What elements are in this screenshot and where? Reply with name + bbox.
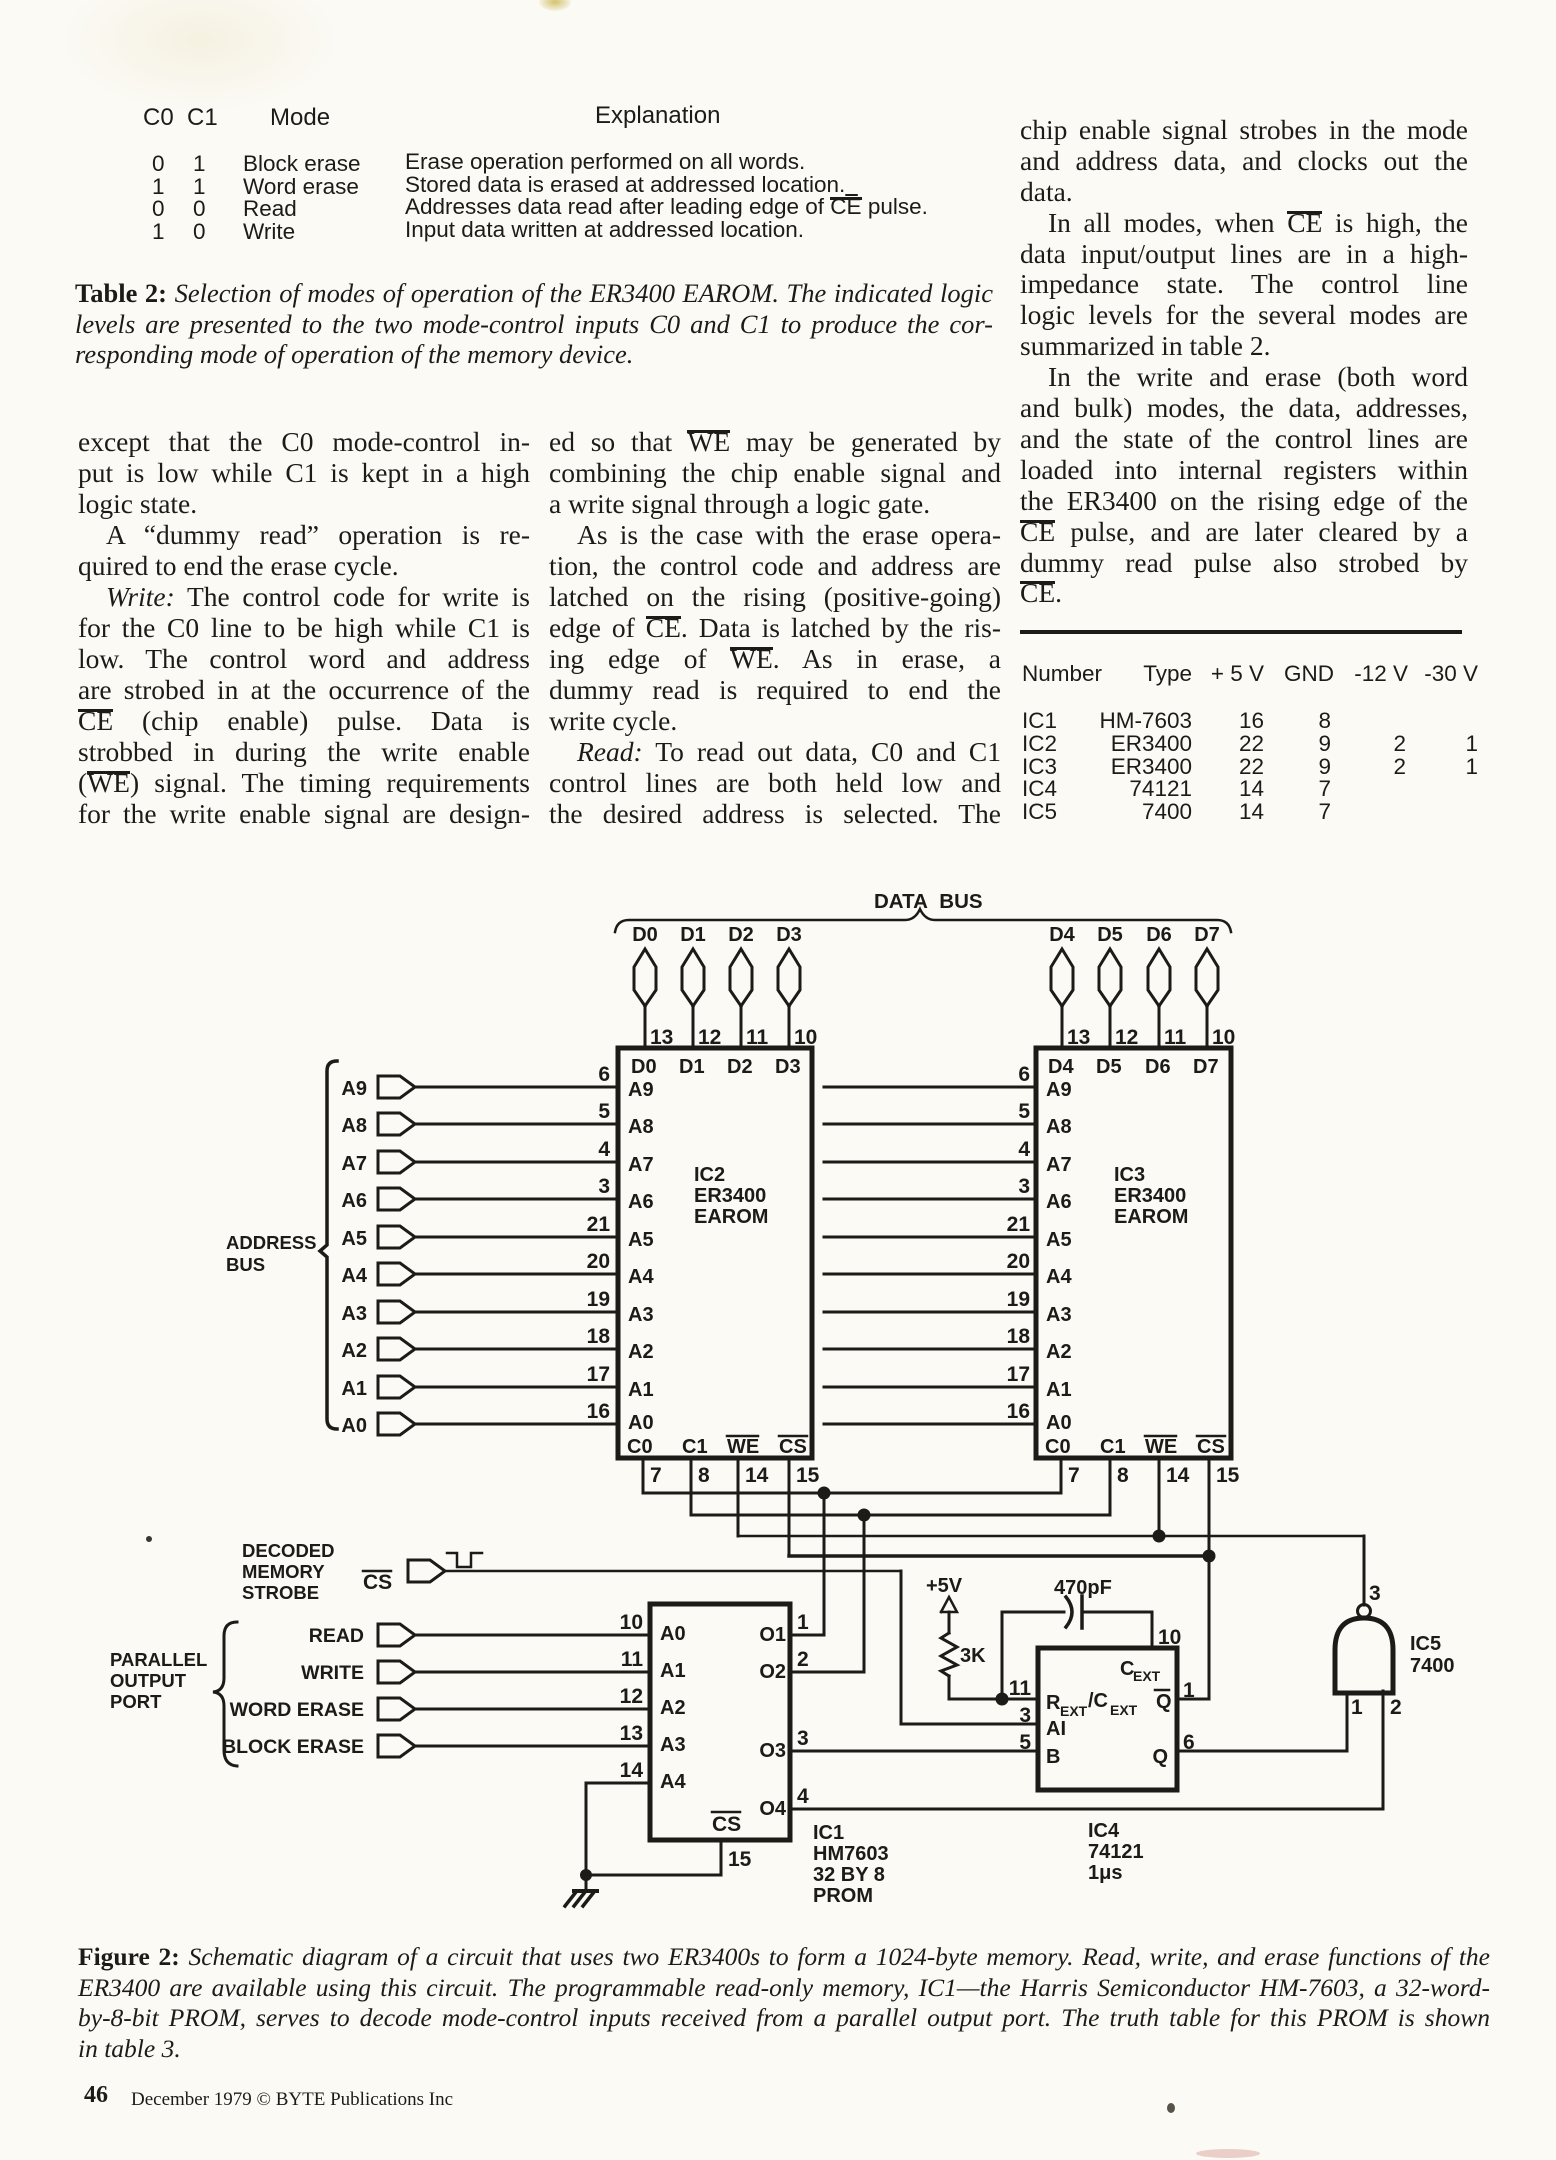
svg-text:6: 6 — [1018, 1063, 1030, 1086]
svg-text:C0: C0 — [1045, 1436, 1071, 1458]
svg-text:A1: A1 — [628, 1379, 654, 1401]
svg-text:13: 13 — [620, 1722, 643, 1745]
svg-text:6: 6 — [598, 1063, 610, 1086]
svg-text:A5: A5 — [628, 1229, 654, 1251]
svg-text:A2: A2 — [628, 1341, 654, 1363]
svg-text:14: 14 — [745, 1464, 769, 1487]
svg-text:WRITE: WRITE — [301, 1662, 364, 1684]
svg-text:IC4: IC4 — [1088, 1820, 1120, 1842]
svg-text:A6: A6 — [628, 1191, 654, 1213]
svg-text:EXT: EXT — [1060, 1703, 1088, 1719]
svg-text:O2: O2 — [759, 1661, 786, 1683]
svg-text:C1: C1 — [682, 1436, 708, 1458]
svg-text:D3: D3 — [776, 924, 802, 946]
svg-text:A7: A7 — [1046, 1154, 1072, 1176]
svg-text:A5: A5 — [341, 1228, 367, 1250]
svg-text:20: 20 — [1007, 1250, 1030, 1273]
svg-text:A4: A4 — [660, 1771, 686, 1793]
svg-text:11: 11 — [1009, 1677, 1032, 1700]
svg-text:74121: 74121 — [1088, 1841, 1144, 1863]
svg-text:19: 19 — [1007, 1288, 1030, 1311]
svg-text:21: 21 — [587, 1213, 611, 1236]
svg-text:A8: A8 — [1046, 1116, 1072, 1138]
svg-text:12: 12 — [620, 1685, 643, 1708]
svg-text:A4: A4 — [341, 1265, 367, 1287]
svg-text:A1: A1 — [1046, 1379, 1072, 1401]
svg-text:A0: A0 — [1046, 1412, 1072, 1434]
svg-text:C0: C0 — [627, 1436, 653, 1458]
svg-text:1μs: 1μs — [1088, 1862, 1122, 1884]
svg-text:10: 10 — [1158, 1626, 1181, 1649]
svg-text:A3: A3 — [341, 1303, 367, 1325]
svg-text:BLOCK ERASE: BLOCK ERASE — [222, 1736, 364, 1758]
svg-text:HM7603: HM7603 — [813, 1843, 889, 1865]
svg-text:+5V: +5V — [926, 1575, 963, 1597]
svg-text:D7: D7 — [1194, 924, 1220, 946]
svg-text:AI: AI — [1046, 1718, 1066, 1740]
svg-text:/C: /C — [1088, 1690, 1108, 1712]
svg-text:15: 15 — [728, 1848, 752, 1871]
svg-text:10: 10 — [620, 1611, 643, 1634]
svg-text:7: 7 — [650, 1464, 662, 1487]
svg-text:OUTPUT: OUTPUT — [110, 1670, 187, 1691]
svg-text:A9: A9 — [1046, 1079, 1072, 1101]
svg-text:EXT: EXT — [1110, 1702, 1138, 1718]
svg-text:21: 21 — [1007, 1213, 1031, 1236]
svg-text:A9: A9 — [341, 1078, 367, 1100]
svg-text:A3: A3 — [1046, 1304, 1072, 1326]
svg-text:17: 17 — [1007, 1363, 1030, 1386]
svg-text:7400: 7400 — [1410, 1655, 1455, 1677]
svg-text:IC5: IC5 — [1410, 1633, 1441, 1655]
svg-text:1: 1 — [1183, 1679, 1195, 1702]
svg-text:D6: D6 — [1146, 924, 1172, 946]
svg-text:13: 13 — [650, 1026, 673, 1049]
svg-text:A6: A6 — [1046, 1191, 1072, 1213]
svg-text:5: 5 — [1018, 1100, 1030, 1123]
svg-text:IC1: IC1 — [813, 1822, 844, 1844]
svg-text:19: 19 — [587, 1288, 610, 1311]
svg-text:3: 3 — [1019, 1704, 1031, 1727]
svg-text:CS: CS — [1197, 1436, 1225, 1458]
svg-text:3: 3 — [1369, 1582, 1381, 1605]
svg-text:PROM: PROM — [813, 1885, 873, 1907]
svg-text:CS: CS — [363, 1571, 392, 1594]
svg-text:14: 14 — [1166, 1464, 1190, 1487]
svg-text:10: 10 — [1212, 1026, 1235, 1049]
svg-text:EAROM: EAROM — [694, 1206, 768, 1228]
svg-text:18: 18 — [587, 1325, 611, 1348]
svg-text:A1: A1 — [660, 1660, 686, 1682]
svg-text:12: 12 — [1115, 1026, 1138, 1049]
svg-text:3: 3 — [598, 1175, 610, 1198]
svg-text:A4: A4 — [628, 1266, 654, 1288]
svg-text:MEMORY: MEMORY — [242, 1561, 325, 1582]
svg-text:ER3400: ER3400 — [694, 1185, 766, 1207]
svg-text:16: 16 — [587, 1400, 610, 1423]
svg-text:O3: O3 — [759, 1740, 786, 1762]
svg-text:IC2: IC2 — [694, 1164, 725, 1186]
svg-text:EXT: EXT — [1133, 1668, 1161, 1684]
svg-text:O1: O1 — [759, 1624, 786, 1646]
svg-text:A7: A7 — [628, 1154, 654, 1176]
svg-text:Q: Q — [1152, 1746, 1168, 1768]
svg-text:DATA BUS: DATA BUS — [874, 890, 983, 913]
svg-text:5: 5 — [1019, 1731, 1031, 1754]
svg-text:12: 12 — [698, 1026, 721, 1049]
svg-text:STROBE: STROBE — [242, 1582, 319, 1603]
svg-text:D2: D2 — [727, 1056, 753, 1078]
svg-text:BUS: BUS — [226, 1254, 265, 1275]
svg-text:D0: D0 — [632, 924, 658, 946]
svg-text:A0: A0 — [660, 1623, 686, 1645]
svg-text:32 BY 8: 32 BY 8 — [813, 1864, 885, 1886]
svg-text:A5: A5 — [1046, 1229, 1072, 1251]
svg-text:READ: READ — [309, 1625, 364, 1647]
svg-text:1: 1 — [797, 1611, 809, 1634]
svg-text:D5: D5 — [1097, 924, 1123, 946]
svg-text:WORD ERASE: WORD ERASE — [230, 1699, 364, 1721]
svg-text:D4: D4 — [1049, 924, 1075, 946]
svg-text:470pF: 470pF — [1054, 1577, 1112, 1599]
svg-text:D1: D1 — [679, 1056, 705, 1078]
svg-text:15: 15 — [796, 1464, 820, 1487]
svg-text:R: R — [1046, 1692, 1061, 1714]
svg-text:8: 8 — [698, 1464, 710, 1487]
svg-text:A8: A8 — [628, 1116, 654, 1138]
svg-text:4: 4 — [598, 1138, 610, 1161]
svg-text:A2: A2 — [1046, 1341, 1072, 1363]
svg-text:CS: CS — [779, 1436, 807, 1458]
svg-text:D0: D0 — [631, 1056, 657, 1078]
svg-text:20: 20 — [587, 1250, 610, 1273]
svg-text:ADDRESS: ADDRESS — [226, 1232, 316, 1253]
svg-text:A6: A6 — [341, 1190, 367, 1212]
svg-text:A0: A0 — [628, 1412, 654, 1434]
svg-text:2: 2 — [1390, 1696, 1402, 1719]
svg-text:EAROM: EAROM — [1114, 1206, 1188, 1228]
svg-text:D5: D5 — [1096, 1056, 1122, 1078]
svg-text:11: 11 — [746, 1026, 769, 1049]
svg-text:4: 4 — [797, 1785, 809, 1808]
svg-text:1: 1 — [1351, 1696, 1363, 1719]
svg-text:13: 13 — [1067, 1026, 1090, 1049]
svg-text:14: 14 — [620, 1759, 644, 1782]
svg-text:PARALLEL: PARALLEL — [110, 1649, 207, 1670]
svg-text:CS: CS — [712, 1813, 741, 1836]
svg-text:IC3: IC3 — [1114, 1164, 1145, 1186]
svg-text:3: 3 — [797, 1727, 809, 1750]
svg-text:2: 2 — [797, 1648, 809, 1671]
svg-text:3: 3 — [1018, 1175, 1030, 1198]
svg-text:10: 10 — [794, 1026, 817, 1049]
svg-text:D3: D3 — [775, 1056, 801, 1078]
svg-text:17: 17 — [587, 1363, 610, 1386]
svg-text:A4: A4 — [1046, 1266, 1072, 1288]
svg-text:D6: D6 — [1145, 1056, 1171, 1078]
svg-text:8: 8 — [1117, 1464, 1129, 1487]
svg-text:PORT: PORT — [110, 1691, 162, 1712]
svg-text:Q: Q — [1156, 1691, 1172, 1713]
svg-text:A1: A1 — [341, 1378, 367, 1400]
svg-text:D1: D1 — [680, 924, 706, 946]
svg-text:D7: D7 — [1193, 1056, 1219, 1078]
svg-text:6: 6 — [1183, 1731, 1195, 1754]
svg-text:D4: D4 — [1048, 1056, 1074, 1078]
svg-text:DECODED: DECODED — [242, 1540, 335, 1561]
svg-text:A3: A3 — [660, 1734, 686, 1756]
svg-text:C1: C1 — [1100, 1436, 1126, 1458]
svg-text:A8: A8 — [341, 1115, 367, 1137]
svg-text:16: 16 — [1007, 1400, 1030, 1423]
svg-text:A7: A7 — [341, 1153, 367, 1175]
svg-text:ER3400: ER3400 — [1114, 1185, 1186, 1207]
svg-text:11: 11 — [621, 1648, 644, 1671]
svg-text:A3: A3 — [628, 1304, 654, 1326]
svg-text:A2: A2 — [341, 1340, 367, 1362]
svg-text:11: 11 — [1164, 1026, 1187, 1049]
svg-text:A2: A2 — [660, 1697, 686, 1719]
svg-text:5: 5 — [598, 1100, 610, 1123]
svg-text:O4: O4 — [759, 1798, 787, 1820]
svg-text:A9: A9 — [628, 1079, 654, 1101]
svg-text:4: 4 — [1018, 1138, 1030, 1161]
svg-text:7: 7 — [1068, 1464, 1080, 1487]
svg-text:WE: WE — [1145, 1436, 1177, 1458]
svg-text:D2: D2 — [728, 924, 754, 946]
svg-text:WE: WE — [727, 1436, 759, 1458]
svg-text:B: B — [1046, 1746, 1060, 1768]
svg-text:3K: 3K — [960, 1645, 986, 1667]
svg-text:A0: A0 — [341, 1415, 367, 1437]
svg-text:15: 15 — [1216, 1464, 1240, 1487]
svg-text:18: 18 — [1007, 1325, 1031, 1348]
